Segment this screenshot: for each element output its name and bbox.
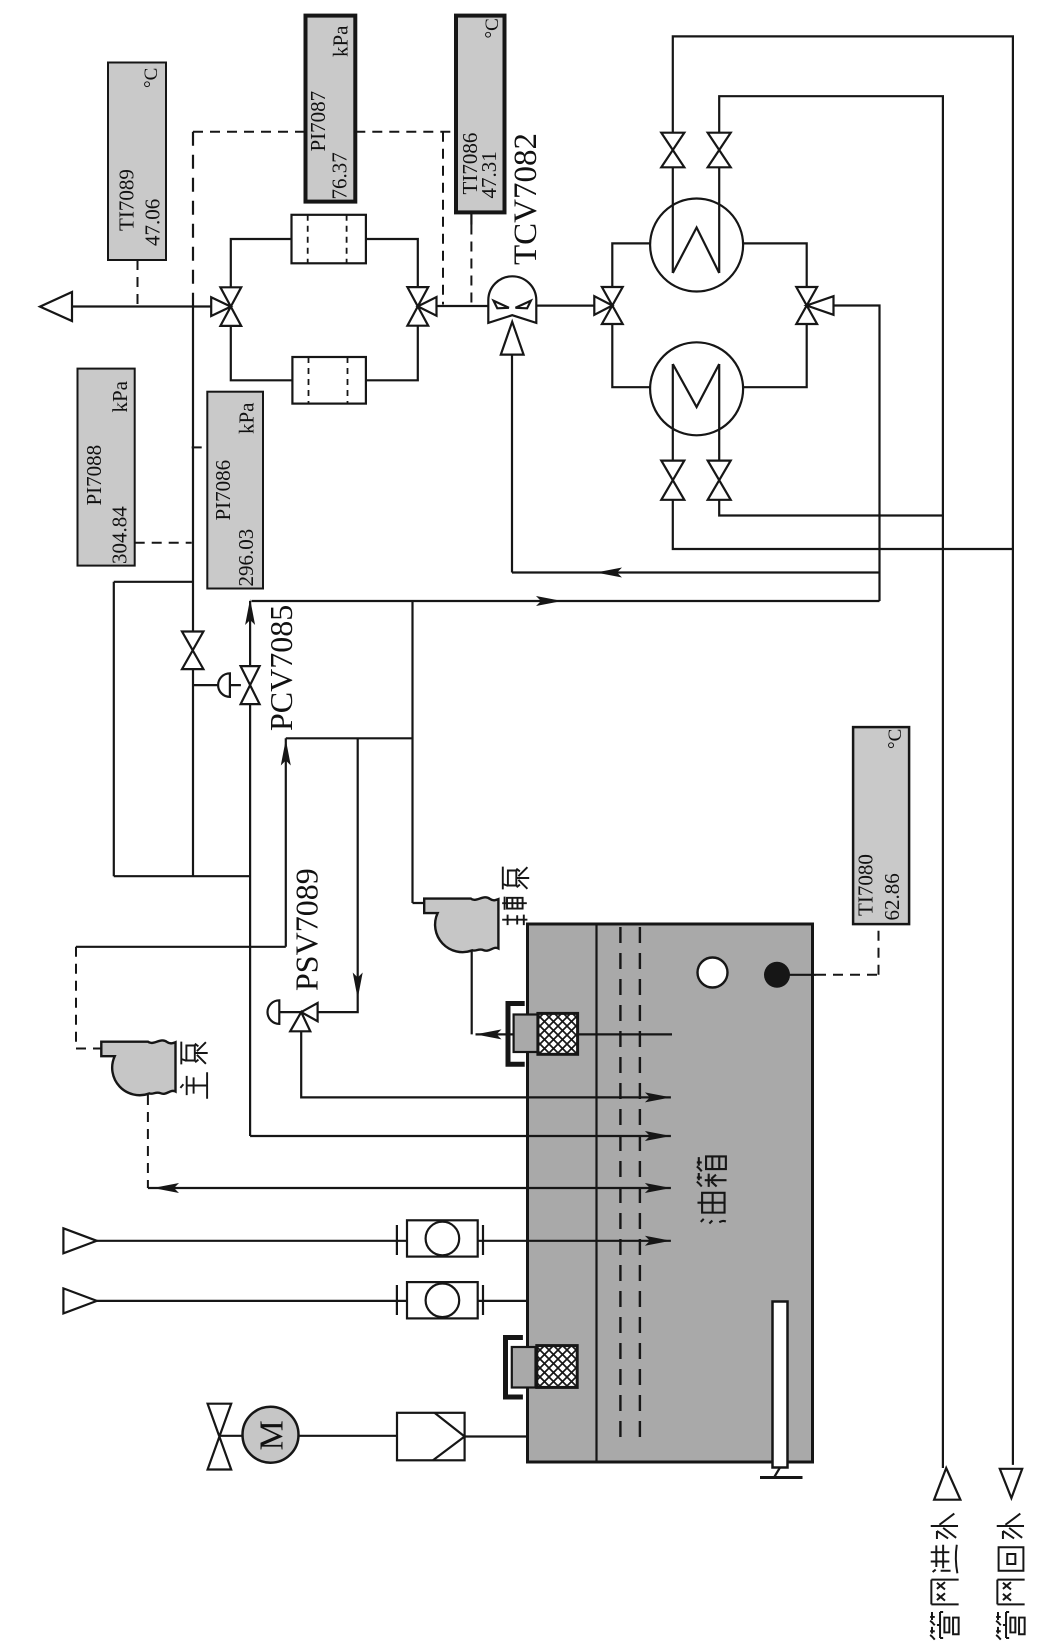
arrow into tank from PSV line — [645, 1092, 671, 1102]
arrow left on line A — [596, 568, 622, 578]
strainer SB grey block — [512, 1347, 536, 1388]
cooling water return bottom header — [673, 500, 1013, 549]
TCV7082 inner wedge right — [516, 301, 531, 309]
cooler C2 circle — [650, 342, 743, 435]
sensor dot stub line — [789, 974, 817, 976]
arrow into tank on suction line — [645, 1183, 671, 1193]
flowmeter FM1 — [397, 1225, 483, 1255]
pipe cooler C2 to valve V4 — [743, 324, 807, 387]
header y738 — [286, 737, 413, 739]
valve VB cooler top right — [708, 133, 731, 168]
svg-text:PI7086: PI7086 — [211, 460, 235, 521]
pipe valve V1 down to filter F2 — [231, 326, 293, 380]
label aux pump 辅泵 — [503, 867, 529, 890]
three-way valve V1 — [211, 287, 241, 326]
tank internal dashed level line 2 — [639, 927, 641, 1437]
arrow down on PSV feed — [353, 973, 363, 999]
svg-text:°C: °C — [141, 68, 162, 88]
pipe TCV7082 to valve V3 — [536, 305, 594, 307]
pipe valve V3 up to cooler C1 — [612, 243, 650, 287]
instrument PI7088 box — [78, 369, 135, 566]
svg-text:PI7087: PI7087 — [306, 91, 330, 152]
cooler water pipe right top — [718, 167, 720, 273]
instrument signal dashed line PI7087/TI7086 horizontal — [193, 131, 456, 133]
heater motor line valve to motor — [219, 1435, 242, 1437]
tank internal partition line — [595, 924, 597, 1462]
valve VC cooler bottom left — [661, 461, 684, 500]
cooler water pipe left top — [672, 167, 674, 273]
filter F1 — [292, 215, 366, 263]
tank vent circle — [698, 958, 728, 988]
svg-text:kPa: kPa — [235, 402, 259, 434]
svg-text:47.06: 47.06 — [141, 199, 165, 246]
water return triangle — [1000, 1469, 1022, 1498]
return line A with arrow — [512, 571, 880, 573]
strainer SA hatched element — [538, 1013, 578, 1054]
label oil tank 油箱 — [697, 1156, 727, 1186]
tank temperature sensor dot — [764, 962, 790, 988]
aux pump — [424, 897, 498, 952]
relief valve PSV7089 body — [290, 1003, 317, 1031]
svg-text:kPa: kPa — [329, 25, 353, 57]
svg-text:TI7089: TI7089 — [115, 169, 139, 231]
pipe cooler C1 to valve V4 — [743, 243, 807, 287]
svg-text:76.37: 76.37 — [328, 152, 352, 199]
control valve TCV7082 body — [488, 276, 536, 323]
instrument tap PI7088 — [135, 542, 192, 544]
svg-text:M: M — [254, 1420, 291, 1450]
main pump discharge riser — [76, 738, 286, 947]
feed line B — [252, 600, 880, 602]
instrument TI7080 box — [853, 727, 909, 924]
cooler C2 pipes — [673, 364, 719, 461]
pipe filter F1 to valve V2 — [366, 239, 418, 288]
strainer SB hatched element — [537, 1346, 577, 1388]
cooling water inlet bottom header — [719, 500, 943, 516]
inlet open triangle T1 — [63, 1228, 96, 1253]
three-way valve V3 — [594, 287, 622, 324]
pipe valve V3 down to cooler C2 — [612, 324, 650, 387]
instrument tap TI7080 dashed — [816, 924, 879, 975]
svg-text:PCV7085: PCV7085 — [263, 605, 299, 731]
pipe valve V2 to TCV7082 — [437, 305, 489, 307]
motor to check valve — [299, 1435, 398, 1437]
instrument PI7086 box — [207, 392, 263, 589]
three-way valve V2 — [407, 287, 436, 326]
strainer SB bracket — [506, 1338, 523, 1398]
aux pump suction — [472, 951, 672, 1035]
oil tank body — [528, 924, 813, 1462]
svg-text:PSV7089: PSV7089 — [289, 868, 325, 991]
instrument TI7089 box — [108, 63, 166, 261]
pipe riser valve V1 to filter F1 — [231, 239, 292, 288]
instrument PI7087 box — [306, 16, 356, 202]
PCV loop branch — [114, 582, 250, 876]
tank internal dashed level line 1 — [619, 927, 621, 1437]
PSV7089 actuator dome — [267, 1000, 279, 1024]
arrow up on pump riser — [281, 740, 291, 766]
svg-text:°C: °C — [885, 729, 906, 749]
arrow into tank from PCV loop — [645, 1131, 671, 1141]
main pump discharge dashed connection — [76, 947, 101, 1049]
drain valve V6 — [208, 1404, 232, 1470]
aux pump discharge riser — [413, 601, 425, 903]
label 管网回水 water return — [997, 1514, 1024, 1539]
dashed vertical sense line at x193 — [192, 132, 194, 307]
label 管网进水 water inlet — [931, 1514, 958, 1539]
TCV7082 inner wedge left — [494, 301, 509, 309]
electric heater motor M — [243, 1407, 299, 1463]
hand valve V5 — [182, 632, 203, 670]
PCV7085 actuator dome — [218, 673, 230, 697]
strainer SA grey block — [514, 1015, 538, 1053]
svg-text:kPa: kPa — [108, 380, 132, 412]
water inlet triangle — [934, 1468, 960, 1500]
valve VA cooler top left — [661, 133, 684, 168]
valve VD cooler bottom right — [708, 461, 731, 500]
instrument tap PI7086 — [192, 446, 208, 448]
instrument tap TI7089 to pipe — [137, 260, 139, 307]
arrow left on suction line — [153, 1183, 179, 1193]
instrument tap TI7086 to pipe — [470, 212, 472, 224]
arrow into tank on flowmeter line — [645, 1236, 671, 1246]
PCV7085 risers — [250, 601, 671, 1136]
pipe valve V4 to downcomer — [834, 306, 880, 602]
arrow right on line B — [536, 596, 562, 606]
svg-text:PI7088: PI7088 — [82, 445, 106, 506]
control valve PCV7085 body — [241, 666, 260, 704]
supply outlet open arrow — [40, 292, 72, 321]
cooler C1 coil W — [673, 228, 719, 274]
label main pump 主泵 — [181, 1042, 207, 1065]
cooler C2 coil M — [673, 364, 719, 407]
PSV7089 outlet to tank — [301, 1031, 671, 1097]
arrow left on aux suction — [476, 1029, 502, 1039]
svg-text:TI7080: TI7080 — [854, 854, 878, 916]
tank level gauge slot — [773, 1302, 788, 1468]
inlet line with flowmeter FM1 — [97, 1240, 671, 1242]
instrument signal dashed drop PI7087 to pipe — [442, 132, 444, 305]
svg-text:304.84: 304.84 — [108, 506, 132, 564]
TCV7082 bypass signal line — [511, 355, 513, 573]
svg-text:296.03: 296.03 — [234, 529, 258, 587]
svg-text:°C: °C — [482, 18, 503, 38]
pressure tap line x193 — [192, 307, 194, 877]
check valve — [397, 1413, 465, 1461]
inlet open triangle T2 — [63, 1288, 96, 1313]
check valve to tank — [465, 1435, 528, 1437]
supply header pipe — [72, 305, 211, 307]
pipe filter F2 to valve V2 — [366, 326, 418, 380]
svg-text:62.86: 62.86 — [880, 873, 904, 920]
cooling water return top header — [673, 36, 1013, 1465]
svg-text:TCV7082: TCV7082 — [508, 133, 544, 265]
filter F2 — [292, 357, 366, 404]
main pump — [101, 1040, 175, 1095]
main pump suction dashed connection — [147, 1095, 149, 1188]
three-way valve V4 — [796, 287, 833, 324]
inlet line with flowmeter FM2 — [97, 1300, 529, 1302]
arrow up at PCV riser top — [245, 599, 255, 625]
main pump suction line — [148, 1187, 671, 1189]
cooling water inlet top header — [719, 96, 943, 1468]
svg-text:47.31: 47.31 — [477, 151, 501, 198]
PCV7085 pilot line — [193, 684, 241, 686]
PSV7089 feed line — [318, 738, 358, 1012]
instrument TI7086 box — [456, 16, 505, 213]
flowmeter FM2 — [397, 1285, 483, 1315]
cooler C1 circle — [650, 199, 743, 292]
TCV7082 pilot arrow — [501, 322, 524, 355]
strainer SA bracket — [508, 1004, 525, 1065]
